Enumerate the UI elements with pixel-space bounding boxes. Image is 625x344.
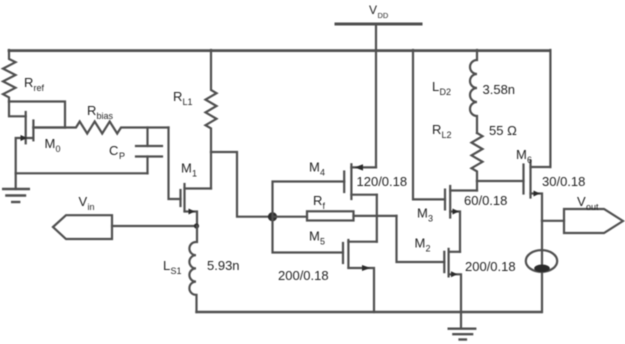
svg-text:4: 4 xyxy=(320,168,325,178)
svg-text:L: L xyxy=(163,258,170,273)
label V_DD xyxy=(369,3,389,20)
label 30/0.18 xyxy=(542,174,585,189)
wire junction to M4 gate xyxy=(273,182,345,217)
label 55 ohm xyxy=(489,123,517,138)
svg-text:60/0.18: 60/0.18 xyxy=(464,193,507,208)
wire top rail xyxy=(9,49,550,52)
wire Rf right to output node xyxy=(354,215,397,217)
label LD2 xyxy=(432,79,451,97)
transistor M4 xyxy=(344,164,377,199)
svg-text:30/0.18: 30/0.18 xyxy=(542,174,585,189)
label 5.93n xyxy=(207,258,240,273)
svg-text:5.93n: 5.93n xyxy=(207,258,240,273)
transistor M3 xyxy=(445,186,477,252)
wire top rail to M3 gate xyxy=(413,50,445,199)
svg-text:P: P xyxy=(119,151,125,161)
resistor Rf (box) xyxy=(307,211,354,220)
wire M6 drain to top rail xyxy=(549,50,551,167)
svg-text:M: M xyxy=(309,160,320,175)
transistor M6 xyxy=(524,161,551,221)
svg-text:R: R xyxy=(87,103,96,118)
svg-text:M: M xyxy=(417,206,428,221)
svg-text:200/0.18: 200/0.18 xyxy=(278,268,329,283)
wire junction to Rf left xyxy=(273,216,308,218)
label M6 xyxy=(516,147,532,165)
label 3.58n xyxy=(483,82,516,97)
svg-text:M: M xyxy=(45,136,56,151)
svg-text:D2: D2 xyxy=(440,87,452,97)
node inverter input junction xyxy=(268,212,277,221)
svg-text:R: R xyxy=(24,75,33,90)
label Vin xyxy=(79,194,95,212)
power rail VDD bar xyxy=(336,23,421,26)
wire RL2 bottom node to M3 drain xyxy=(476,181,478,191)
svg-text:3: 3 xyxy=(428,214,433,224)
wire bottom rail xyxy=(197,311,542,313)
label 120/0.18 xyxy=(357,174,408,189)
transistor M0 xyxy=(16,112,65,173)
label M4 xyxy=(309,160,325,178)
node Vin junction xyxy=(194,223,199,228)
capacitor Cp xyxy=(136,128,162,174)
label 200/0.18 M2 xyxy=(465,259,516,274)
svg-text:in: in xyxy=(88,202,95,212)
resistor RL2 xyxy=(472,133,483,181)
svg-text:DD: DD xyxy=(378,11,389,20)
wire M6 source to current source xyxy=(541,221,543,312)
svg-text:V: V xyxy=(369,3,377,17)
svg-text:V: V xyxy=(79,194,88,209)
label 60/0.18 xyxy=(464,193,507,208)
label RL1 xyxy=(173,89,193,107)
label Rf xyxy=(313,193,326,211)
wire output node to M2 gate xyxy=(397,216,445,262)
wire Rbias node to M1 gate xyxy=(169,128,181,200)
svg-text:2: 2 xyxy=(426,244,431,254)
label M3 xyxy=(417,206,433,224)
svg-text:L1: L1 xyxy=(183,97,193,107)
wire M4 drain to M5 drain xyxy=(376,195,378,242)
input port Vin xyxy=(53,215,112,239)
wire RL1 node to inverter input xyxy=(211,152,268,217)
inductor LD2 xyxy=(470,50,477,133)
label 200/0.18 M5 xyxy=(278,268,329,283)
wire Rref bottom node to M0 drain xyxy=(9,102,65,128)
inductor LS1 xyxy=(189,226,197,312)
wire Rref bottom to M0 gate xyxy=(9,102,26,117)
label LS1 xyxy=(163,258,182,276)
label M5 xyxy=(309,229,325,247)
wire RL2 bottom node to M6 gate xyxy=(477,180,524,182)
svg-text:ref: ref xyxy=(34,83,45,93)
svg-text:M: M xyxy=(309,229,320,244)
label Rref xyxy=(24,75,45,93)
label Rbias xyxy=(87,103,114,121)
transistor M1 xyxy=(181,184,212,226)
svg-text:M: M xyxy=(181,161,192,176)
svg-text:1: 1 xyxy=(192,169,197,179)
transistor M5 xyxy=(343,240,377,312)
wire M0 source ground rail to Cp bottom xyxy=(16,172,148,174)
svg-text:R: R xyxy=(313,193,322,208)
svg-text:M: M xyxy=(415,236,426,251)
ground left xyxy=(3,173,29,202)
output port Vout xyxy=(564,209,623,233)
svg-text:R: R xyxy=(432,122,441,137)
svg-text:bias: bias xyxy=(97,111,114,121)
svg-text:3.58n: 3.58n xyxy=(483,82,516,97)
svg-text:M: M xyxy=(516,147,527,162)
svg-text:f: f xyxy=(323,201,326,211)
svg-text:5: 5 xyxy=(320,237,325,247)
transistor M2 xyxy=(444,249,461,312)
current source I1 xyxy=(526,250,557,272)
svg-text:6: 6 xyxy=(527,155,532,165)
label M2 xyxy=(415,236,431,254)
label Vout xyxy=(577,194,599,212)
resistor RL1 xyxy=(206,50,217,152)
label Cp xyxy=(109,143,125,161)
svg-text:120/0.18: 120/0.18 xyxy=(357,174,408,189)
svg-text:C: C xyxy=(109,143,118,158)
resistor Rbias xyxy=(33,122,168,134)
wire M2 source to ground xyxy=(460,312,462,328)
wire Vin to M1 source xyxy=(112,225,197,227)
wire VDD vertical to M4 source xyxy=(375,24,377,167)
svg-text:200/0.18: 200/0.18 xyxy=(465,259,516,274)
svg-text:R: R xyxy=(173,89,182,104)
svg-text:L: L xyxy=(432,79,439,94)
svg-text:V: V xyxy=(577,194,586,209)
svg-text:0: 0 xyxy=(56,144,61,154)
wire RL1 bottom to M1 drain xyxy=(210,152,212,189)
svg-text:L2: L2 xyxy=(442,130,452,140)
ground right xyxy=(449,329,476,340)
wire junction to M5 gate xyxy=(273,217,344,253)
resistor Rref xyxy=(3,50,16,102)
label M0 xyxy=(45,136,61,154)
svg-text:55 Ω: 55 Ω xyxy=(489,123,517,138)
label M1 xyxy=(181,161,197,179)
wire M6 source to Vout xyxy=(542,220,564,222)
svg-text:out: out xyxy=(586,202,599,212)
svg-text:S1: S1 xyxy=(171,266,182,276)
label RL2 xyxy=(432,122,452,140)
